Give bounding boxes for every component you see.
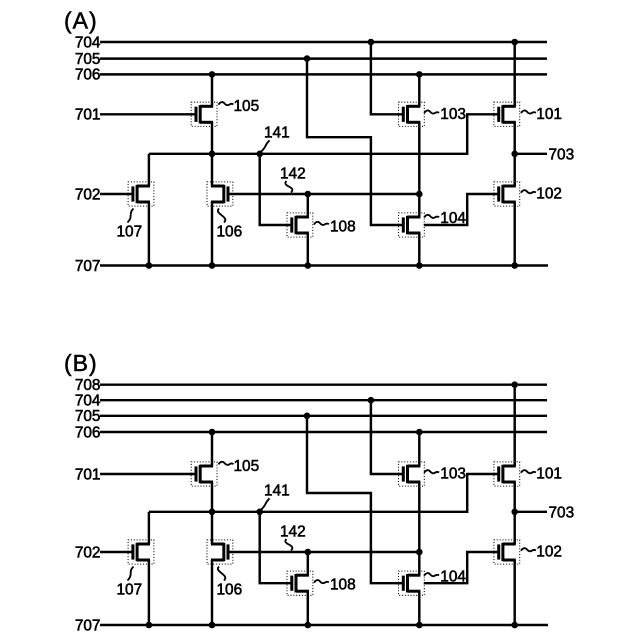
svg-text:707: 707 [75,258,101,275]
wire T104 drain to node 142 (A) [418,194,420,217]
wire node 142 line (T106 gate to T103/T104 column) (B) [228,551,419,553]
wire net 707 line (A) [100,264,548,266]
junction junction on 705 (A) [304,55,311,62]
wire node 141 branch to T108 gate (B) [260,512,292,583]
junction junctions on 704 (A) [368,39,518,46]
transistor 104 (B) [399,571,425,595]
wire T108 source to 707 (A) [307,233,309,266]
svg-text:108: 108 [330,218,356,235]
leader squiggle T105 (A) [219,102,234,105]
junction junctions on node 141 (B) [209,509,518,516]
wire 706 to T103 drain (A) [418,74,420,106]
transistor 101 (B) [494,462,520,486]
junction junctions on node 141 (A) [209,151,518,158]
svg-text:105: 105 [234,98,260,115]
svg-text:701: 701 [75,107,101,124]
wire T107 source to 707 (A) [148,202,150,266]
wire T106 drain from node 141 (A) [211,154,213,186]
transistor 107 (B) [128,540,154,564]
junction junctions on 707 (B) [146,622,518,629]
wire T108 drain to node 142 (A) [307,194,309,217]
svg-text:104: 104 [440,568,466,585]
svg-text:707: 707 [75,617,101,634]
transistor 106 (A) mirrored [207,182,233,206]
transistor 105 (B) [191,462,217,486]
wire 705 branch to T104 gate (A) [307,59,403,225]
svg-text:107: 107 [117,582,143,599]
wire T104 gate net to T102 gate (A) [424,194,499,225]
svg-text:108: 108 [330,577,356,594]
transistor 101 (A) [494,102,520,126]
wire net 707 line (B) [100,624,548,626]
junction junction on 705 (B) [304,413,311,420]
leader squiggle T103 (B) [424,470,439,473]
svg-text:701: 701 [75,466,101,483]
svg-text:703: 703 [549,504,575,521]
wire 706 to T103 drain (B) [418,432,420,466]
wire T105 source to node 141 (B) [211,482,213,512]
wire T104 source to 707 (A) [418,233,420,266]
junction junctions on 707 (A) [146,262,518,269]
wire net 703 stub (A) [515,153,547,155]
wire net 701 line (A) [100,113,196,115]
wire net 706 line (A) [100,73,547,75]
wire T104 gate net to T102 gate (B) [424,552,499,583]
svg-text:103: 103 [440,466,466,483]
transistor 104 (A) [399,213,425,237]
svg-text:706: 706 [75,67,101,84]
svg-text:702: 702 [75,186,101,203]
leader squiggle node 141 (A) [262,140,270,151]
svg-text:141: 141 [264,125,290,142]
svg-text:142: 142 [280,524,306,541]
junction junctions on 704 (B) [368,397,375,404]
junction junctions on 706 (B) [209,429,423,436]
leader squiggle T102 (A) [521,190,536,193]
svg-text:705: 705 [75,408,101,425]
wire T107 drain to node 141 (B) [148,512,150,544]
wire T105 source to node 141 (A) [211,122,213,154]
transistor 102 (A) [494,182,520,206]
leader squiggle node 142 (B) [285,539,292,551]
wire node 142 line (T106 gate to T103/T104 column) (A) [228,193,419,195]
svg-text:107: 107 [117,224,143,241]
leader squiggle T108 (B) [314,580,329,583]
transistor 105 (A) [191,102,217,126]
wire node 141 line to T101 gate (A) [149,114,499,154]
leader squiggle T106 (B) [218,567,225,581]
svg-text:101: 101 [536,106,562,123]
svg-text:708: 708 [75,377,101,394]
wire 705 branch to T104 gate (B) [307,416,403,583]
svg-text:704: 704 [75,34,101,51]
transistor 108 (A) [287,213,313,237]
wire net 704 line (B) [100,399,547,401]
wire T107 source to 707 (B) [148,560,150,625]
svg-text:104: 104 [440,210,466,227]
leader squiggle T107 (B) [128,567,134,581]
svg-text:101: 101 [536,466,562,483]
svg-text:102: 102 [536,186,562,203]
wire node 141 line to T101 gate (B) [149,474,499,512]
wire T101 source through node 703 to T102 drain (A) [513,122,515,186]
wire T102 source to 707 (B) [513,560,515,625]
svg-text:105: 105 [234,458,260,475]
leader squiggle T104 (A) [424,215,439,218]
svg-text:(B): (B) [64,350,98,376]
wire T102 source to 707 (A) [513,202,515,266]
svg-text:705: 705 [75,51,101,68]
wire T104 source to 707 (B) [418,591,420,625]
svg-text:102: 102 [536,544,562,561]
transistor 103 (B) [399,462,425,486]
svg-text:706: 706 [75,424,101,441]
wire net 708 line (B) [100,383,547,385]
junction junctions on 708 (B) [511,381,518,388]
leader squiggle T103 (A) [424,110,439,113]
wire 704 branch to T103 gate (A) [371,42,403,114]
leader squiggle T107 (A) [128,209,134,223]
wire T103 source to node 142 (A) [418,122,420,194]
transistor 106 (B) mirrored [207,540,233,564]
svg-text:142: 142 [280,166,306,183]
leader squiggle T105 (B) [219,462,234,465]
leader squiggle T106 (A) [218,209,225,223]
leader squiggle T102 (B) [521,548,536,551]
wire net 701 line (B) [100,473,196,475]
svg-text:703: 703 [549,146,575,163]
svg-text:103: 103 [440,106,466,123]
wire node 141 branch to T108 gate (A) [260,154,292,225]
junction junctions on 706 (A) [209,71,423,78]
leader squiggle node 142 (A) [285,181,292,193]
svg-text:(A): (A) [64,8,98,34]
svg-text:702: 702 [75,544,101,561]
wire T101 drain to top clock line (B) [513,385,515,466]
transistor 102 (B) [494,540,520,564]
transistor 107 (A) [128,182,154,206]
transistor 108 (B) [287,571,313,595]
wire net 704 line (A) [100,41,547,43]
svg-text:141: 141 [264,483,290,500]
wire net 705 line (B) [100,415,547,417]
transistor 103 (A) [399,102,425,126]
svg-text:704: 704 [75,393,101,410]
wire net 702 line (A) [100,193,133,195]
leader squiggle T108 (A) [314,222,329,225]
wire T106 source to 707 (B) [211,560,213,625]
wire T103 source to node 142 (B) [418,482,420,552]
wire net 703 stub (B) [515,511,547,513]
leader squiggle node 141 (B) [262,498,270,509]
wire T104 drain to node 142 (B) [418,552,420,575]
svg-text:106: 106 [217,582,243,599]
wire 706 to T105 drain (B) [211,432,213,466]
wire T101 source through node 703 to T102 drain (B) [513,482,515,544]
wire net 702 line (B) [100,551,133,553]
wire T101 drain to top clock line (A) [513,42,515,106]
junction junctions on node 142 (A) [305,191,423,198]
wire T108 drain to node 142 (B) [307,552,309,575]
wire 706 to T105 drain (A) [211,74,213,106]
wire net 705 line (A) [100,57,547,59]
leader squiggle T101 (B) [521,470,536,473]
wire T106 drain from node 141 (B) [211,512,213,544]
leader squiggle T101 (A) [521,110,536,113]
svg-text:106: 106 [217,224,243,241]
wire T107 drain to node 141 (A) [148,154,150,186]
wire T106 source to 707 (A) [211,202,213,266]
wire 704 branch to T103 gate (B) [371,400,403,474]
wire net 706 line (B) [100,431,547,433]
junction junctions on node 142 (B) [305,549,423,556]
wire T108 source to 707 (B) [307,591,309,625]
leader squiggle T104 (B) [424,573,439,576]
